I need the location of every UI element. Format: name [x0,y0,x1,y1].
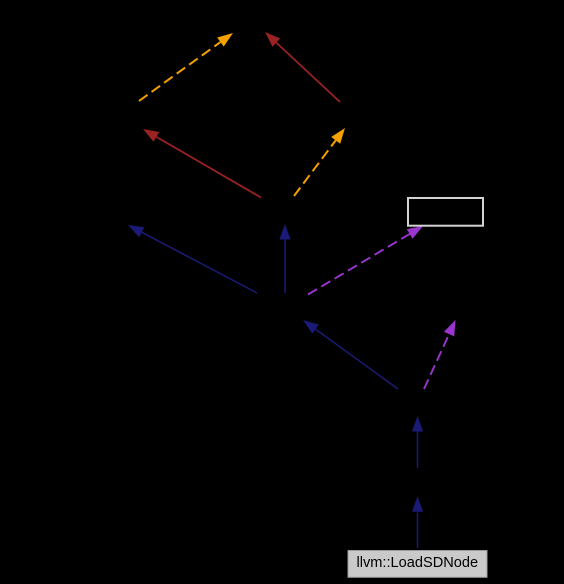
svg-text:llvm::LoadSDNode: llvm::LoadSDNode [356,555,478,571]
usage edge (purple dashed) node E to white box W [308,226,423,295]
usage edge (purple dashed) node F to node H [424,320,456,389]
node llvm::LoadSDNode (highlighted, gray fill) [348,551,487,578]
inheritance edge (navy solid) node F to node E [303,320,398,389]
node W: empty box with light border [408,198,483,226]
inheritance edge (navy solid) node E to node C [279,224,290,293]
inheritance edge (navy solid) node I to node F [412,416,423,468]
inheritance edge (navy solid) node E to node G [128,225,257,293]
inheritance edge (dark red solid) node C to node B [143,129,261,198]
template-instance edge (orange dashed) node B to node A [139,33,233,101]
inheritance edge (dark red solid) node D to node A [265,32,340,102]
template-instance edge (orange dashed) node C to node D [294,128,345,196]
inheritance edge (navy solid) llvm::LoadSDNode box to node I [412,496,423,548]
